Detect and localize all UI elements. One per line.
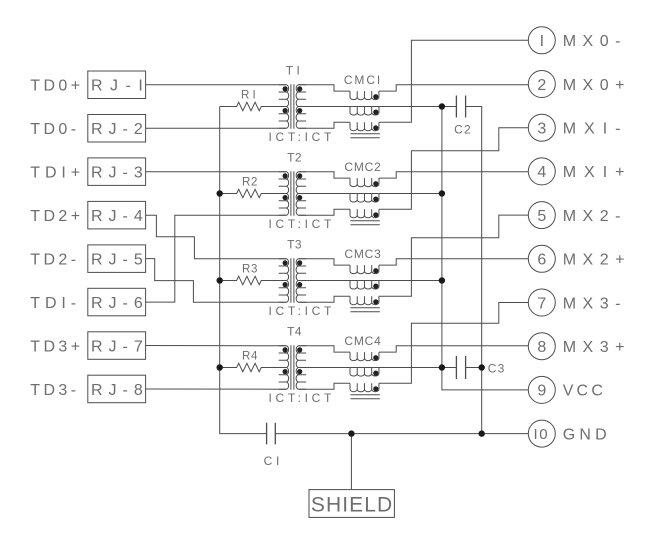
svg-text:C2: C2 [454, 122, 472, 136]
svg-text:VCC: VCC [563, 383, 606, 400]
svg-text:RJ-2: RJ-2 [91, 121, 149, 138]
svg-text:CMC2: CMC2 [344, 160, 381, 174]
svg-text:GND: GND [563, 426, 611, 443]
svg-text:TDI-: TDI- [30, 295, 81, 312]
svg-text:R2: R2 [242, 177, 258, 189]
svg-text:R3: R3 [242, 264, 258, 276]
svg-text:CMC3: CMC3 [344, 247, 381, 261]
svg-text:MX2+: MX2+ [563, 252, 631, 269]
svg-text:RJ-8: RJ-8 [91, 382, 149, 399]
svg-text:RJ-I: RJ-I [91, 78, 150, 95]
svg-text:R4: R4 [242, 351, 258, 363]
svg-text:TI: TI [286, 64, 303, 78]
svg-text:RJ-3: RJ-3 [91, 165, 149, 182]
svg-text:T2: T2 [287, 151, 302, 165]
svg-text:TDI+: TDI+ [30, 165, 85, 182]
svg-text:MX0-: MX0- [563, 33, 627, 50]
svg-text:7: 7 [537, 295, 546, 312]
svg-text:RJ-7: RJ-7 [91, 338, 149, 355]
svg-text:3: 3 [537, 121, 546, 138]
svg-text:MX0+: MX0+ [563, 77, 631, 94]
svg-text:RJ-6: RJ-6 [91, 295, 149, 312]
svg-text:TD0+: TD0+ [30, 78, 83, 95]
svg-text:8: 8 [537, 339, 546, 356]
svg-text:6: 6 [537, 252, 546, 269]
svg-text:RI: RI [241, 90, 259, 102]
svg-text:RJ-5: RJ-5 [91, 251, 149, 268]
svg-text:C3: C3 [488, 361, 506, 375]
svg-text:ICT:ICT: ICT:ICT [269, 391, 336, 405]
svg-text:ICT:ICT: ICT:ICT [269, 304, 336, 318]
svg-text:MXI+: MXI+ [563, 164, 633, 181]
svg-text:RJ-4: RJ-4 [91, 208, 149, 225]
svg-text:9: 9 [537, 383, 546, 400]
svg-text:ICT:ICT: ICT:ICT [269, 217, 336, 231]
svg-text:TD0-: TD0- [30, 121, 79, 138]
svg-text:CI: CI [264, 454, 284, 468]
svg-text:MX2-: MX2- [563, 208, 627, 225]
svg-text:TD2+: TD2+ [30, 208, 83, 225]
svg-text:SHIELD: SHIELD [311, 494, 393, 517]
svg-text:I0: I0 [534, 426, 550, 443]
svg-text:CMCI: CMCI [344, 73, 382, 87]
svg-text:TD3-: TD3- [30, 382, 79, 399]
svg-text:MX3-: MX3- [563, 295, 627, 312]
svg-text:T4: T4 [287, 325, 302, 339]
svg-text:TD3+: TD3+ [30, 338, 83, 355]
svg-text:TD2-: TD2- [30, 251, 79, 268]
svg-text:ICT:ICT: ICT:ICT [269, 130, 336, 144]
svg-text:MX3+: MX3+ [563, 339, 631, 356]
svg-text:5: 5 [537, 208, 546, 225]
svg-text:4: 4 [537, 164, 546, 181]
svg-text:T3: T3 [287, 238, 302, 252]
svg-text:CMC4: CMC4 [344, 334, 381, 348]
svg-text:2: 2 [537, 77, 546, 94]
svg-text:MXI-: MXI- [563, 121, 629, 138]
svg-text:I: I [540, 33, 544, 50]
